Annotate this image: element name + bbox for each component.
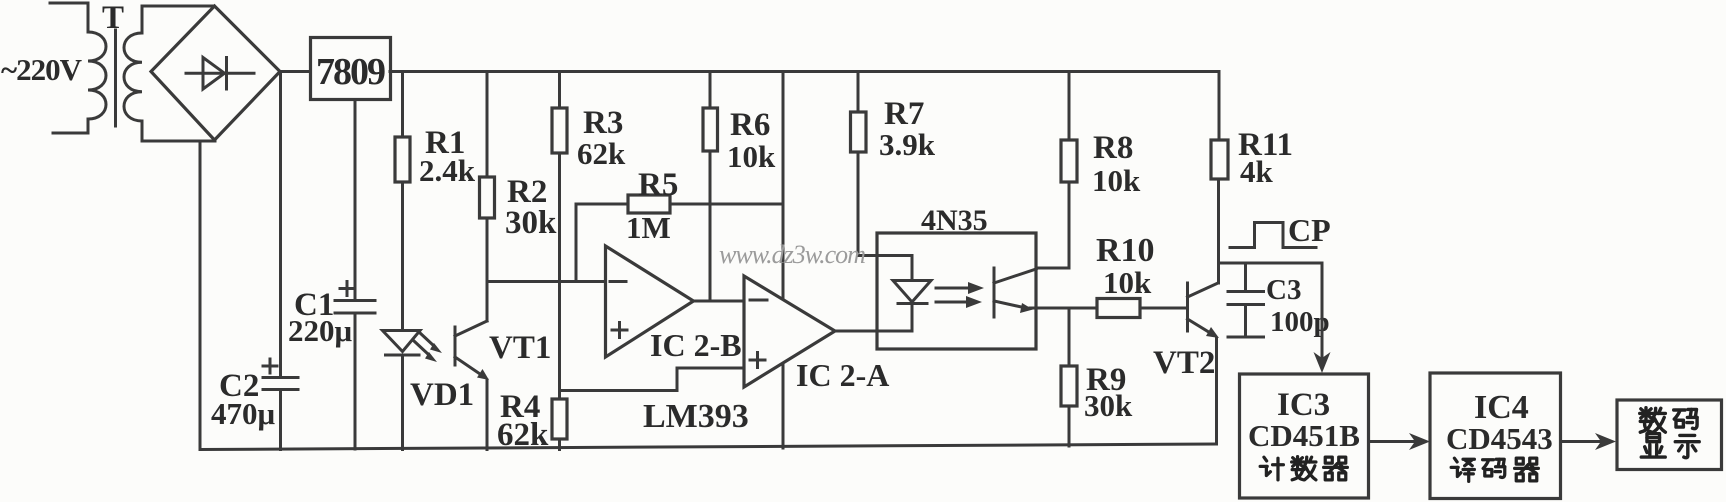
svg-text:IC 2-A: IC 2-A — [796, 357, 889, 393]
svg-text:62k: 62k — [577, 136, 626, 171]
resistor R1 — [401, 72, 404, 138]
svg-text:2.4k: 2.4k — [419, 153, 476, 188]
svg-text:10k: 10k — [727, 139, 776, 174]
photodiode VD1 — [383, 331, 421, 352]
wire emitter node — [1030, 307, 1097, 310]
wire ground rail — [200, 444, 1217, 450]
capacitor C3 — [1244, 263, 1247, 291]
resistor R2 — [486, 72, 489, 178]
resistor R10 — [1097, 299, 1140, 318]
resistor R3 — [558, 72, 561, 109]
resistor R11 — [1218, 72, 1221, 141]
svg-text:CP: CP — [1288, 212, 1331, 248]
wire primary top lead — [50, 3, 88, 32]
resistor R7 — [857, 72, 860, 113]
svg-text:220μ: 220μ — [288, 313, 353, 348]
svg-text:10k: 10k — [1103, 265, 1152, 300]
capacitor C2 — [279, 72, 282, 378]
op-amp IC 2-A — [744, 276, 835, 387]
display box — [1617, 400, 1722, 470]
svg-text:VD1: VD1 — [410, 377, 474, 413]
svg-text:470μ: 470μ — [211, 396, 276, 431]
wire IC2A output — [835, 330, 912, 333]
svg-text:R6: R6 — [730, 107, 770, 143]
IC3 counter box — [1240, 374, 1369, 498]
resistor R8 — [1068, 72, 1071, 141]
svg-text:IC 2-B: IC 2-B — [650, 327, 742, 363]
regulator 7809 — [311, 38, 391, 100]
svg-text:R5: R5 — [638, 167, 678, 203]
wire primary bottom lead — [53, 119, 88, 133]
resistor R4 — [552, 399, 567, 439]
wire phototransistor collector to R8 — [1036, 267, 1069, 270]
svg-text:30k: 30k — [1084, 388, 1133, 423]
label 数码 — [1640, 408, 1666, 433]
svg-text:7809: 7809 — [316, 51, 385, 93]
svg-text:3.9k: 3.9k — [879, 127, 936, 162]
transformer core — [114, 30, 117, 126]
optocoupler LED — [911, 256, 914, 281]
wire top supply rail — [390, 70, 1219, 73]
svg-text:10k: 10k — [1092, 163, 1141, 198]
label 译码器 — [1451, 458, 1474, 481]
svg-text:LM393: LM393 — [643, 398, 749, 435]
wire VT2 collector node to IC3 — [1219, 262, 1323, 265]
bridge rectifier diamond — [151, 6, 280, 140]
svg-text:VT1: VT1 — [489, 330, 551, 366]
resistor R5 — [576, 203, 628, 206]
arrow IC4 to display — [1561, 440, 1603, 443]
wire secondary top lead — [142, 6, 214, 33]
optocoupler phototransistor — [993, 268, 996, 317]
transistor VT2 — [1186, 283, 1189, 331]
wire IC2B output to IC2A input — [694, 300, 745, 303]
wire clock input arrow into IC3 — [1321, 263, 1324, 360]
wire LM393 V- pin — [782, 364, 785, 449]
transformer T secondary winding — [124, 33, 142, 121]
svg-text:www.dz3w.com: www.dz3w.com — [719, 240, 865, 269]
svg-text:4N35: 4N35 — [921, 204, 988, 237]
wire 7809 ground pin — [354, 100, 357, 300]
wire LM393 V+ pin — [782, 72, 785, 300]
svg-text:VT2: VT2 — [1153, 345, 1215, 381]
IC4 decoder box — [1430, 373, 1561, 499]
capacitor C1 — [335, 299, 375, 302]
svg-text:T: T — [102, 0, 124, 36]
CP pulse symbol — [1230, 223, 1316, 248]
svg-text:CD4543: CD4543 — [1446, 421, 1553, 456]
svg-text:CD451B: CD451B — [1248, 418, 1360, 453]
svg-text:R8: R8 — [1093, 130, 1133, 166]
wire secondary bottom lead — [142, 121, 215, 141]
transistor VT1 — [454, 327, 457, 365]
wire IC2B inverting input — [487, 280, 606, 283]
optocoupler 4N35 box — [877, 233, 1036, 349]
op-amp IC 2-B — [606, 246, 694, 357]
svg-text:30k: 30k — [505, 205, 557, 241]
resistor R9 — [1068, 308, 1071, 366]
optocoupler light arrows — [936, 287, 972, 290]
wire secondary to ground rail — [199, 141, 202, 450]
label 显示 — [1641, 434, 1665, 457]
svg-text:~220V: ~220V — [1, 52, 83, 87]
svg-text:R10: R10 — [1096, 232, 1155, 269]
arrow IC3 to IC4 — [1369, 440, 1417, 443]
transformer T primary winding — [88, 32, 106, 119]
resistor R6 — [709, 72, 712, 109]
wire R3/R4 node to IC2A non-inverting input — [560, 368, 745, 391]
svg-text:C3: C3 — [1266, 274, 1301, 306]
svg-text:1M: 1M — [626, 210, 671, 245]
wire bridge output to 7809 — [280, 70, 310, 73]
svg-text:4k: 4k — [1240, 154, 1274, 189]
label 计数器 — [1260, 457, 1283, 480]
bridge diode symbol — [186, 72, 254, 75]
